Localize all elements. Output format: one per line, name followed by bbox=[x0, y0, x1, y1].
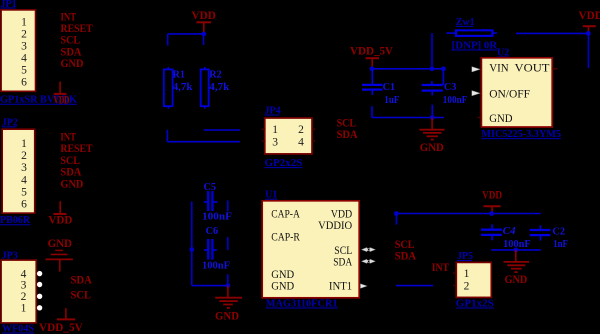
svg-text:2: 2 bbox=[21, 291, 27, 303]
magnetometer U1 body bbox=[262, 201, 359, 298]
svg-text:C2: C2 bbox=[552, 226, 565, 238]
svg-text:R1: R1 bbox=[173, 69, 185, 81]
wire horizontal VDD to R1 branch bbox=[168, 33, 204, 35]
connector JP2 pin numbers bbox=[21, 138, 27, 210]
svg-text:GND: GND bbox=[420, 140, 444, 154]
connector JP4 pin stubs bbox=[262, 129, 316, 141]
output arrow at U1 INT1 bbox=[360, 284, 367, 289]
svg-text:VOUT: VOUT bbox=[515, 62, 550, 74]
connector JP5 label bbox=[457, 251, 473, 262]
svg-text:VDD_5V: VDD_5V bbox=[350, 44, 393, 58]
svg-text:100nF: 100nF bbox=[202, 211, 232, 223]
svg-text:GND: GND bbox=[60, 176, 83, 190]
resistor Zw1 bbox=[447, 30, 498, 36]
svg-text:C1: C1 bbox=[383, 81, 396, 93]
svg-text:SDA: SDA bbox=[71, 273, 93, 287]
svg-text:3: 3 bbox=[21, 162, 27, 174]
junction node at VDD_5V bbox=[370, 66, 375, 71]
power symbol VDD (top middle) bbox=[196, 22, 211, 34]
svg-text:2: 2 bbox=[464, 280, 470, 292]
connector JP3 pin numbers bbox=[21, 269, 27, 315]
svg-text:1: 1 bbox=[21, 303, 27, 315]
svg-text:INT1: INT1 bbox=[329, 281, 353, 293]
capacitor C2 bbox=[530, 225, 551, 240]
connector JP4 pin numbers bbox=[272, 124, 304, 148]
svg-text:100nF: 100nF bbox=[443, 94, 468, 106]
capacitor C6 bbox=[204, 239, 217, 260]
svg-text:2: 2 bbox=[21, 28, 27, 40]
connector JP2 body bbox=[2, 129, 35, 213]
svg-text:GND: GND bbox=[61, 56, 84, 70]
svg-text:SDA: SDA bbox=[333, 256, 353, 268]
wire gnd rail (C4 C2) bbox=[491, 249, 541, 251]
junction node at gnd bbox=[226, 283, 231, 288]
connector JP4 body bbox=[265, 118, 312, 154]
capacitor C3 bbox=[422, 69, 444, 118]
wire segment C5 right bbox=[227, 201, 229, 212]
part number MIC5225-3.3YM5 (U2) bbox=[481, 129, 561, 140]
svg-text:INT: INT bbox=[432, 260, 449, 274]
svg-text:4: 4 bbox=[21, 52, 27, 64]
junction node at C3 gnd bbox=[430, 115, 435, 120]
svg-text:4,7k: 4,7k bbox=[209, 81, 230, 93]
input arrow at U2 ON/OFF bbox=[472, 91, 480, 96]
svg-text:CAP-R: CAP-R bbox=[271, 232, 300, 244]
capacitor C5 bbox=[204, 191, 218, 211]
svg-text:1uF: 1uF bbox=[384, 94, 399, 106]
wire Zw1 left branch down to rail bbox=[431, 33, 433, 69]
connector JP4 label bbox=[265, 105, 281, 116]
svg-text:ON/OFF: ON/OFF bbox=[489, 88, 530, 100]
wire R2 to JP4 pin1 bbox=[204, 129, 240, 131]
junction node at C3 branch bbox=[441, 66, 446, 71]
ground symbol (below C6) bbox=[215, 286, 242, 308]
svg-text:5: 5 bbox=[21, 186, 27, 198]
svg-text:2: 2 bbox=[298, 124, 304, 136]
connector JP5 body bbox=[456, 262, 491, 297]
svg-text:SCL: SCL bbox=[334, 245, 352, 257]
svg-text:4: 4 bbox=[298, 136, 304, 148]
connector JP2 label bbox=[2, 118, 18, 129]
svg-text:SDA: SDA bbox=[337, 127, 358, 141]
svg-text:WF04S: WF04S bbox=[2, 323, 34, 334]
junction node left end bbox=[394, 211, 399, 216]
svg-text:C5: C5 bbox=[204, 181, 217, 193]
svg-text:VDDIO: VDDIO bbox=[318, 220, 352, 232]
regulator U2 label bbox=[497, 48, 509, 59]
connector JP3 label bbox=[2, 250, 18, 261]
svg-text:1: 1 bbox=[272, 124, 278, 136]
svg-text:2: 2 bbox=[21, 150, 27, 162]
svg-text:1: 1 bbox=[21, 16, 27, 28]
value text [DNP] 0R (Zw1) bbox=[452, 40, 498, 51]
footprint text WF04S (JP3) bbox=[2, 323, 34, 334]
connector JP5 pin numbers bbox=[464, 268, 470, 293]
power symbol VDD (bottom right) bbox=[484, 206, 501, 213]
junction node on left rail bbox=[189, 247, 194, 252]
magnetometer U1 label bbox=[265, 190, 277, 201]
svg-text:VDD: VDD bbox=[54, 92, 70, 106]
footprint text GP2x2S (JP4) bbox=[265, 158, 303, 169]
capacitor C1 bbox=[362, 69, 383, 118]
wire left rail (C5 C6) bbox=[191, 202, 193, 286]
capacitor C4 bbox=[481, 224, 502, 240]
junction node at VDD bbox=[489, 211, 494, 216]
svg-text:6: 6 bbox=[21, 76, 27, 88]
wire vertical R1 branch corner bbox=[166, 130, 168, 142]
junction node at Zw1 branch bbox=[430, 66, 435, 71]
wire bottom (C5 C6 gnd) bbox=[192, 285, 228, 287]
svg-text:C6: C6 bbox=[206, 225, 219, 237]
svg-text:SDA: SDA bbox=[395, 249, 417, 263]
power symbol VDD below JP1 bbox=[54, 82, 67, 94]
wire segment C6 right bbox=[227, 237, 229, 250]
svg-text:VDD: VDD bbox=[48, 212, 72, 226]
wire segment to gnd junction bbox=[227, 274, 229, 285]
svg-text:VIN: VIN bbox=[489, 62, 509, 74]
connector JP3 pin circles bbox=[37, 271, 42, 311]
bidirectional arrow at U1 SCL bbox=[361, 247, 375, 251]
resistor R1 bbox=[164, 67, 173, 109]
wire vertical down to R2 bbox=[203, 34, 205, 45]
part number MAG3110FCR1 (U1) bbox=[266, 298, 338, 309]
power symbol VDD (top right) bbox=[583, 26, 596, 33]
svg-text:3: 3 bbox=[21, 279, 27, 291]
svg-text:CAP-A: CAP-A bbox=[271, 208, 300, 220]
wire VDD down toward VOUT bbox=[587, 33, 589, 68]
junction dot at VDD tee bbox=[201, 32, 206, 37]
svg-text:C4: C4 bbox=[503, 225, 516, 237]
ground symbol (inverted, above JP3) bbox=[46, 250, 73, 271]
svg-text:SCL: SCL bbox=[71, 288, 92, 302]
svg-text:5: 5 bbox=[21, 64, 27, 76]
connector JP1 body bbox=[1, 10, 35, 91]
wire R1 to JP4 pin3 bbox=[167, 141, 240, 143]
wire Zw1 right to VDD bbox=[516, 32, 588, 34]
input arrow at U2 VIN bbox=[472, 67, 480, 72]
svg-text:3: 3 bbox=[21, 40, 27, 52]
svg-text:GND: GND bbox=[271, 269, 294, 281]
svg-text:100nF: 100nF bbox=[202, 259, 230, 271]
ground symbol (below C4 C2) bbox=[504, 250, 530, 272]
svg-text:GND: GND bbox=[271, 281, 294, 293]
svg-text:GND: GND bbox=[48, 236, 73, 250]
junction node at gnd (C4 C2) bbox=[513, 248, 518, 253]
footprint text PB06R (JP2) bbox=[0, 215, 31, 226]
svg-text:GND: GND bbox=[215, 309, 239, 323]
wire VDD_5V rail bbox=[372, 68, 445, 70]
svg-text:1: 1 bbox=[21, 138, 27, 150]
resistor Zw1 label bbox=[456, 17, 475, 28]
wire INT to JP5 bbox=[396, 285, 433, 287]
wire GND rail (below C1 C3) bbox=[372, 117, 444, 119]
connector JP1 pin numbers bbox=[21, 16, 27, 88]
power symbol VDD below JP2 bbox=[53, 201, 66, 214]
svg-text:6: 6 bbox=[21, 198, 27, 210]
svg-text:VDD: VDD bbox=[482, 188, 502, 202]
svg-text:VDD: VDD bbox=[192, 8, 217, 22]
footprint text GP1xSR BVDDK (JP1) bbox=[0, 95, 77, 106]
U2 VOUT pin stub bbox=[552, 68, 557, 70]
svg-text:4: 4 bbox=[21, 174, 27, 186]
connector JP1 label bbox=[1, 0, 17, 10]
bidirectional arrow at U1 SDA bbox=[361, 259, 375, 263]
wire VDD rail (bottom right) bbox=[396, 213, 540, 215]
regulator U2 body bbox=[481, 58, 552, 127]
svg-text:R2: R2 bbox=[209, 69, 222, 81]
ground symbol (below C3) bbox=[419, 118, 444, 140]
connector JP5 pin stubs bbox=[453, 273, 456, 286]
wire stub below left junction bbox=[395, 214, 397, 225]
U2 GND pin stub bbox=[478, 117, 482, 119]
svg-text:3: 3 bbox=[272, 136, 278, 148]
svg-text:VDD: VDD bbox=[579, 8, 600, 22]
power symbol VDD_5V below JP3 bbox=[57, 308, 75, 319]
connector JP3 body bbox=[1, 260, 36, 323]
resistor R2 bbox=[201, 67, 209, 109]
wire vertical down to R1 bbox=[167, 34, 169, 46]
svg-text:GND: GND bbox=[505, 272, 528, 286]
svg-text:GND: GND bbox=[489, 113, 512, 125]
svg-text:4,7k: 4,7k bbox=[173, 81, 194, 93]
junction node VDD top right bbox=[586, 31, 591, 36]
svg-text:C3: C3 bbox=[444, 81, 457, 93]
svg-text:VDD_5V: VDD_5V bbox=[39, 320, 83, 334]
power symbol VDD_5V (mid) bbox=[366, 58, 380, 69]
svg-text:VDD: VDD bbox=[331, 208, 353, 220]
svg-text:1nF: 1nF bbox=[553, 238, 568, 250]
svg-text:1: 1 bbox=[464, 268, 470, 280]
footprint text GP1x2S (JP5) bbox=[456, 298, 494, 309]
